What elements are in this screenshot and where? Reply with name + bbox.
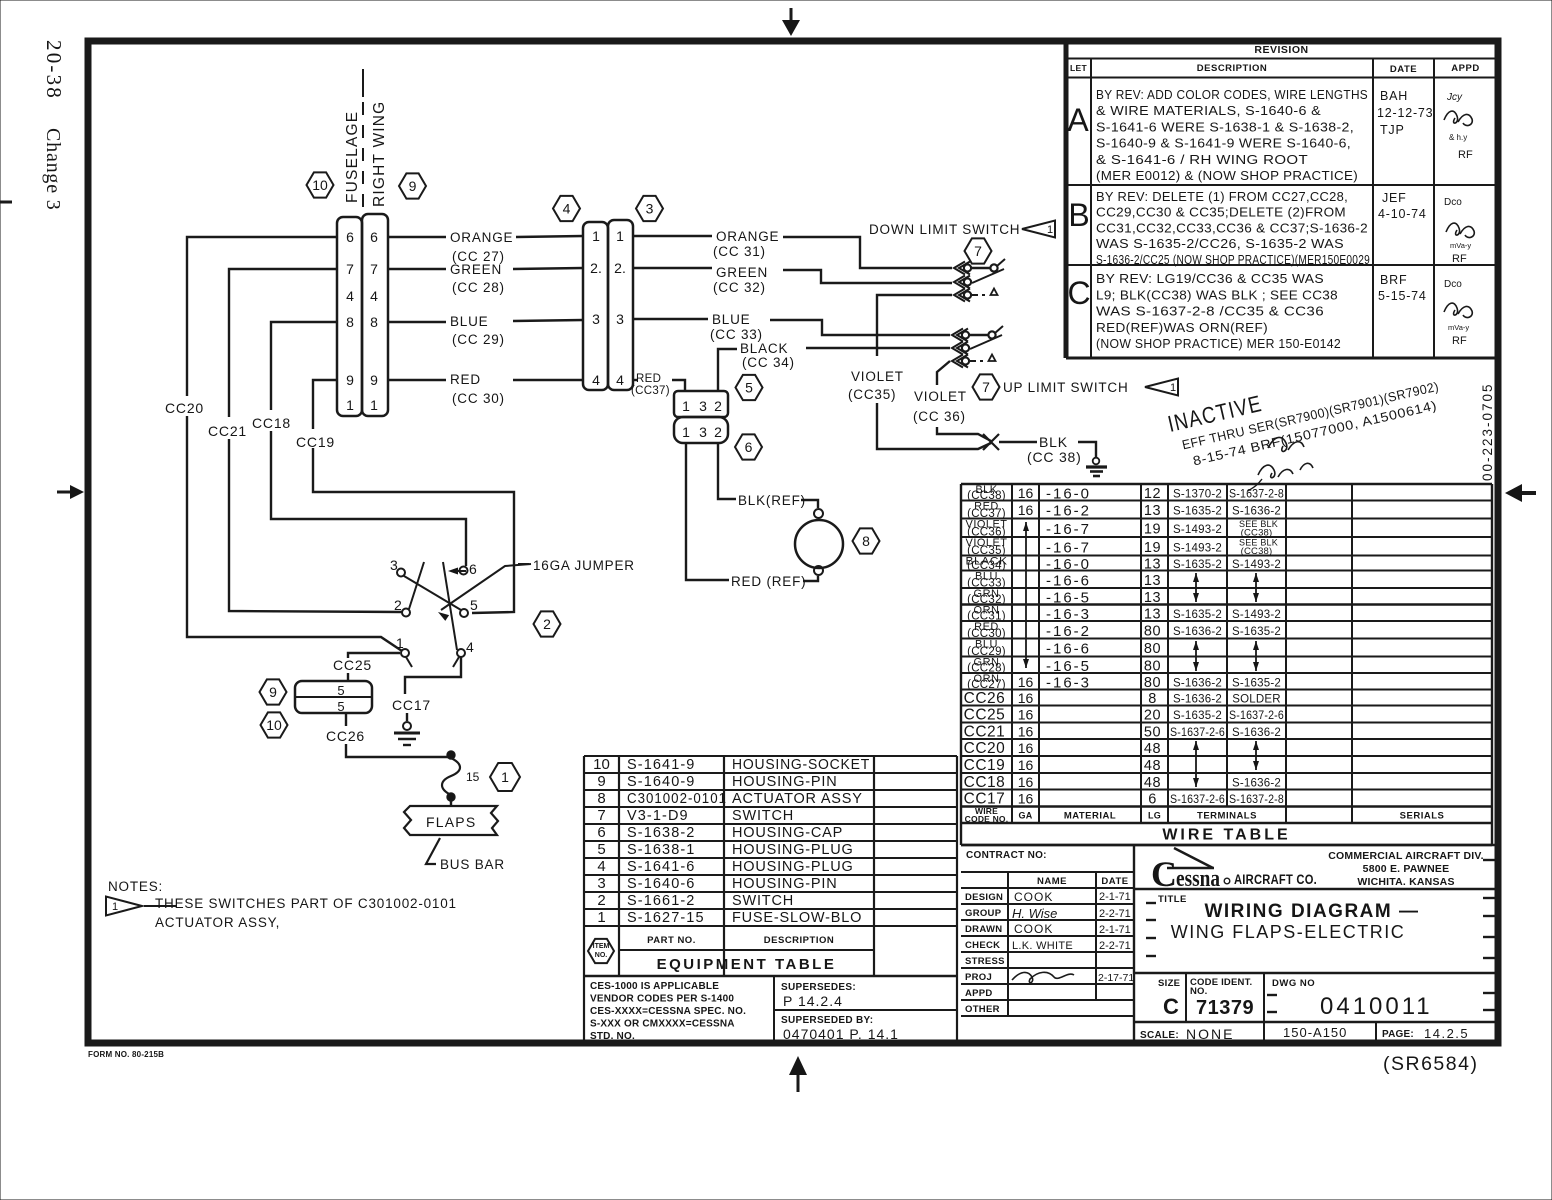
svg-text:CONTRACT NO:: CONTRACT NO: [966, 850, 1047, 861]
svg-text:3: 3 [390, 557, 399, 573]
svg-text:FUSELAGE: FUSELAGE [344, 111, 361, 203]
svg-text:C: C [1067, 275, 1090, 311]
svg-text:V3-1-D9: V3-1-D9 [627, 808, 689, 824]
svg-text:S-1493-2: S-1493-2 [1232, 609, 1281, 621]
svg-text:APPD: APPD [1451, 63, 1479, 74]
svg-text:(CC 28): (CC 28) [452, 280, 505, 295]
svg-text:-16-5: -16-5 [1046, 658, 1091, 675]
svg-text:NO.: NO. [595, 952, 608, 959]
svg-text:JEF: JEF [1382, 191, 1407, 205]
svg-text:2: 2 [597, 892, 605, 909]
svg-text:CES-XXXX=CESSNA SPEC. NO.: CES-XXXX=CESSNA SPEC. NO. [590, 1006, 746, 1017]
svg-text:6: 6 [469, 561, 478, 577]
svg-text:71379: 71379 [1196, 997, 1254, 1019]
svg-text:-16-0: -16-0 [1046, 556, 1091, 573]
svg-text:RF: RF [1452, 253, 1467, 265]
svg-text:(CC 36): (CC 36) [913, 409, 966, 424]
svg-text:& WIRE MATERIALS, S-1640-6 &: & WIRE MATERIALS, S-1640-6 & [1096, 104, 1321, 118]
svg-text:2-2-71: 2-2-71 [1099, 908, 1131, 920]
svg-text:4: 4 [592, 372, 600, 388]
svg-text:SUPERSEDED BY:: SUPERSEDED BY: [781, 1015, 873, 1026]
svg-text:4: 4 [597, 858, 605, 875]
svg-text:S-XXX OR CMXXXX=CESSNA: S-XXX OR CMXXXX=CESSNA [590, 1019, 735, 1030]
svg-text:2-1-71: 2-1-71 [1099, 924, 1131, 936]
svg-text:CC18: CC18 [252, 415, 291, 431]
svg-text:WIRE TABLE: WIRE TABLE [1162, 827, 1290, 844]
svg-text:C301002-0101: C301002-0101 [627, 791, 727, 807]
svg-text:1: 1 [501, 769, 509, 785]
svg-text:COMMERCIAL AIRCRAFT DIV.: COMMERCIAL AIRCRAFT DIV. [1328, 850, 1484, 862]
svg-text:13: 13 [1144, 573, 1161, 589]
svg-text:-16-2: -16-2 [1046, 503, 1091, 520]
svg-text:1: 1 [597, 909, 605, 926]
svg-text:NOTES:: NOTES: [108, 879, 163, 894]
svg-text:(CC 34): (CC 34) [742, 355, 795, 370]
svg-text:-16-3: -16-3 [1046, 674, 1091, 691]
svg-text:mVa-y: mVa-y [1448, 323, 1469, 332]
svg-text:S-1638-2: S-1638-2 [627, 825, 695, 841]
svg-text:CC26: CC26 [326, 728, 365, 744]
svg-text:DRAWN: DRAWN [965, 924, 1002, 935]
svg-text:1: 1 [112, 901, 118, 913]
svg-text:VIOLET: VIOLET [851, 369, 904, 384]
svg-text:SUPERSEDES:: SUPERSEDES: [781, 982, 856, 993]
svg-text:8: 8 [862, 533, 870, 549]
svg-text:CC25: CC25 [964, 707, 1006, 724]
svg-text:MATERIAL: MATERIAL [1064, 811, 1116, 822]
svg-text:S-1637-2-8: S-1637-2-8 [1229, 794, 1284, 806]
svg-text:10: 10 [593, 756, 610, 773]
svg-text:PROJ: PROJ [965, 972, 992, 983]
svg-text:(CC37): (CC37) [631, 385, 670, 397]
svg-text:S-1636-2: S-1636-2 [1173, 694, 1222, 706]
svg-text:CC17: CC17 [964, 791, 1006, 808]
svg-text:4: 4 [616, 372, 624, 388]
svg-text:(CC 33): (CC 33) [710, 327, 763, 342]
svg-text:S-1493-2: S-1493-2 [1232, 559, 1281, 571]
svg-text:BLUE: BLUE [712, 312, 750, 327]
svg-text:S-1635-2: S-1635-2 [1232, 677, 1281, 689]
svg-text:S-1640-9: S-1640-9 [627, 774, 695, 790]
svg-text:2-17-71: 2-17-71 [1098, 972, 1134, 984]
svg-text:S-1641-6: S-1641-6 [627, 859, 695, 875]
svg-text:16: 16 [1018, 791, 1034, 807]
svg-text:S-1627-15: S-1627-15 [627, 910, 705, 926]
svg-text:essna: essna [1176, 866, 1220, 892]
svg-text:8: 8 [370, 314, 378, 330]
svg-text:RED(REF)WAS ORN(REF): RED(REF)WAS ORN(REF) [1096, 321, 1268, 335]
svg-text:15: 15 [466, 770, 480, 784]
svg-text:STD. NO.: STD. NO. [590, 1031, 635, 1042]
svg-text:SERIALS: SERIALS [1400, 811, 1445, 822]
svg-text:8: 8 [597, 790, 605, 807]
svg-text:1: 1 [682, 398, 690, 414]
svg-text:2: 2 [394, 597, 403, 613]
svg-text:ITEM: ITEM [593, 943, 610, 950]
svg-text:16GA JUMPER: 16GA JUMPER [533, 558, 635, 573]
svg-text:Dco: Dco [1444, 197, 1462, 208]
svg-text:2-1-71: 2-1-71 [1099, 891, 1131, 903]
svg-text:5: 5 [337, 699, 344, 714]
svg-text:(CC 38): (CC 38) [1027, 449, 1082, 465]
svg-text:19: 19 [1144, 540, 1161, 556]
svg-text:WAS S-1635-2/CC26, S-1635-2 WA: WAS S-1635-2/CC26, S-1635-2 WAS [1096, 237, 1344, 251]
svg-text:BLUE: BLUE [450, 314, 488, 329]
svg-text:CODE NO.: CODE NO. [965, 814, 1009, 824]
svg-text:-16-5: -16-5 [1046, 589, 1091, 606]
svg-text:S-1640-6: S-1640-6 [627, 876, 695, 892]
svg-text:RED (REF): RED (REF) [731, 574, 806, 589]
svg-text:C: C [1151, 854, 1177, 894]
svg-text:8: 8 [346, 314, 354, 330]
svg-text:1: 1 [370, 397, 378, 413]
svg-text:BRF: BRF [1380, 273, 1407, 287]
svg-text:RED: RED [450, 372, 481, 387]
svg-text:FLAPS: FLAPS [426, 814, 476, 830]
svg-text:S-1636-2: S-1636-2 [1232, 727, 1281, 739]
svg-text:S-1640-9 & S-1641-9 WERE S-164: S-1640-9 & S-1641-9 WERE S-1640-6, [1096, 137, 1351, 151]
svg-text:80: 80 [1144, 658, 1161, 674]
svg-text:THESE SWITCHES PART OF C301002: THESE SWITCHES PART OF C301002-0101 [155, 896, 457, 911]
svg-text:CC19: CC19 [296, 434, 335, 450]
svg-text:HOUSING-PIN: HOUSING-PIN [732, 876, 837, 892]
svg-text:19: 19 [1144, 521, 1161, 537]
svg-text:9: 9 [370, 372, 378, 388]
svg-text:-16-6: -16-6 [1046, 641, 1091, 658]
svg-text:S-1635-2: S-1635-2 [1173, 506, 1222, 518]
svg-text:S-1636-2/CC25 (NOW SHOP PRACTI: S-1636-2/CC25 (NOW SHOP PRACTICE)(MER150… [1096, 253, 1370, 267]
svg-text:(CC 32): (CC 32) [713, 280, 766, 295]
svg-text:Dco: Dco [1444, 279, 1462, 290]
svg-text:APPD: APPD [965, 988, 993, 999]
svg-text:16: 16 [1018, 723, 1034, 739]
svg-text:NONE: NONE [1186, 1026, 1234, 1042]
svg-text:S-1635-2: S-1635-2 [1173, 559, 1222, 571]
svg-text:L.K. WHITE: L.K. WHITE [1012, 940, 1073, 952]
svg-text:9: 9 [597, 773, 605, 790]
svg-text:2.: 2. [614, 260, 626, 276]
svg-text:2.: 2. [590, 260, 602, 276]
svg-text:ACTUATOR ASSY,: ACTUATOR ASSY, [155, 915, 280, 930]
svg-text:WING FLAPS-ELECTRIC: WING FLAPS-ELECTRIC [1171, 922, 1406, 942]
svg-text:CC26: CC26 [964, 690, 1006, 707]
svg-text:CC20: CC20 [165, 400, 204, 416]
svg-text:16: 16 [1018, 707, 1034, 723]
svg-text:48: 48 [1144, 758, 1161, 774]
svg-text:A: A [1067, 102, 1089, 138]
svg-text:48: 48 [1144, 775, 1161, 791]
svg-text:RIGHT WING: RIGHT WING [371, 101, 388, 207]
svg-text:UP LIMIT SWITCH: UP LIMIT SWITCH [1003, 380, 1129, 395]
svg-text:48: 48 [1144, 741, 1161, 757]
svg-text:L9; BLK(CC38) WAS BLK ; SEE C: L9; BLK(CC38) WAS BLK ; SEE CC38 [1096, 288, 1338, 302]
svg-text:SWITCH: SWITCH [732, 808, 794, 824]
svg-text:S-1636-2: S-1636-2 [1232, 777, 1281, 789]
svg-text:50: 50 [1144, 724, 1161, 740]
svg-text:2-2-71: 2-2-71 [1099, 940, 1131, 952]
svg-text:FORM NO. 80-215B: FORM NO. 80-215B [88, 1050, 164, 1059]
svg-text:CC17: CC17 [392, 697, 431, 713]
svg-text:-16-0: -16-0 [1046, 485, 1091, 502]
svg-text:-16-7: -16-7 [1046, 539, 1091, 556]
svg-text:CES-1000 IS APPLICABLE: CES-1000 IS APPLICABLE [590, 981, 719, 992]
svg-text:CC20: CC20 [964, 740, 1006, 757]
svg-text:DESCRIPTION: DESCRIPTION [1197, 63, 1267, 74]
svg-text:TITLE: TITLE [1158, 894, 1187, 905]
svg-text:P 14.2.4: P 14.2.4 [783, 993, 843, 1009]
svg-text:S-1636-2: S-1636-2 [1173, 626, 1222, 638]
svg-text:WIRING DIAGRAM —: WIRING DIAGRAM — [1204, 901, 1419, 922]
svg-text:COOK: COOK [1014, 890, 1053, 904]
svg-text:80: 80 [1144, 675, 1161, 691]
svg-text:VIOLET: VIOLET [914, 389, 967, 404]
svg-text:6: 6 [745, 439, 753, 455]
svg-text:SCALE:: SCALE: [1140, 1030, 1179, 1041]
svg-text:S-1661-2: S-1661-2 [627, 893, 695, 909]
svg-text:(NOW SHOP PRACTICE) MER 150-E: (NOW SHOP PRACTICE) MER 150-E0142 [1096, 337, 1341, 351]
svg-text:S-1370-2: S-1370-2 [1173, 488, 1222, 500]
svg-text:TJP: TJP [1380, 123, 1405, 137]
svg-text:16: 16 [1018, 674, 1034, 690]
svg-text:LET: LET [1070, 63, 1087, 73]
svg-text:mVa-y: mVa-y [1450, 241, 1471, 250]
svg-text:BLK: BLK [1039, 434, 1068, 450]
svg-text:5: 5 [745, 380, 753, 396]
svg-text:3: 3 [699, 424, 707, 440]
svg-text:ORANGE: ORANGE [450, 230, 513, 245]
svg-text:16: 16 [1018, 485, 1034, 501]
svg-text:PAGE:: PAGE: [1382, 1029, 1414, 1040]
svg-text:9: 9 [346, 372, 354, 388]
svg-text:S-1641-9: S-1641-9 [627, 757, 695, 773]
svg-text:ACTUATOR ASSY: ACTUATOR ASSY [732, 791, 863, 807]
svg-text:Jcy: Jcy [1446, 92, 1463, 103]
svg-text:S-1637-2-6: S-1637-2-6 [1170, 794, 1225, 806]
svg-text:BY REV: DELETE (1) FROM CC27,C: BY REV: DELETE (1) FROM CC27,CC28, [1096, 190, 1348, 204]
svg-text:S-1637-2-6: S-1637-2-6 [1170, 727, 1225, 739]
svg-text:COOK: COOK [1014, 922, 1053, 936]
svg-text:CHECK: CHECK [965, 940, 1000, 951]
svg-text:(CC 29): (CC 29) [452, 332, 505, 347]
svg-text:DATE: DATE [1101, 876, 1128, 887]
svg-text:CC31,CC32,CC33,CC36 & CC37;S-1: CC31,CC32,CC33,CC36 & CC37;S-1636-2 [1096, 221, 1368, 235]
svg-text:(CC35): (CC35) [848, 387, 896, 402]
svg-text:4: 4 [346, 288, 354, 304]
svg-text:16: 16 [1018, 774, 1034, 790]
svg-text:CC19: CC19 [964, 757, 1006, 774]
svg-text:RF: RF [1458, 149, 1473, 161]
svg-text:4: 4 [370, 288, 378, 304]
svg-text:6: 6 [346, 229, 354, 245]
svg-text:PART NO.: PART NO. [647, 935, 696, 946]
svg-text:S-1637-2-8: S-1637-2-8 [1229, 488, 1284, 500]
svg-text:OTHER: OTHER [965, 1004, 1000, 1015]
svg-text:13: 13 [1144, 606, 1161, 622]
svg-text:VENDOR CODES PER S-1400: VENDOR CODES PER S-1400 [590, 994, 734, 1005]
svg-text:3: 3 [646, 201, 654, 217]
svg-text:20-38: 20-38 [42, 40, 66, 100]
svg-text:BLACK: BLACK [740, 341, 788, 356]
svg-text:S-1635-2: S-1635-2 [1232, 626, 1281, 638]
svg-text:5800 E. PAWNEE: 5800 E. PAWNEE [1363, 863, 1450, 875]
svg-text:GA: GA [1018, 811, 1032, 821]
svg-text:13: 13 [1144, 503, 1161, 519]
svg-text:S-1641-6 WERE S-1638-1 & S-163: S-1641-6 WERE S-1638-1 & S-1638-2, [1096, 120, 1354, 134]
svg-text:150-A150: 150-A150 [1283, 1025, 1347, 1040]
svg-text:CC29,CC30 & CC35;DELETE (2)FRO: CC29,CC30 & CC35;DELETE (2)FROM [1096, 206, 1346, 220]
svg-text:S-1637-2-6: S-1637-2-6 [1229, 710, 1284, 722]
svg-text:1: 1 [1047, 224, 1053, 236]
svg-text:B: B [1068, 197, 1089, 233]
svg-text:1: 1 [346, 397, 354, 413]
svg-text:HOUSING-SOCKET: HOUSING-SOCKET [732, 757, 870, 773]
svg-text:DESIGN: DESIGN [965, 892, 1003, 903]
svg-text:4-10-74: 4-10-74 [1378, 207, 1427, 221]
svg-text:HOUSING-PIN: HOUSING-PIN [732, 774, 837, 790]
svg-text:5: 5 [337, 683, 344, 698]
svg-text:(CC 31): (CC 31) [713, 244, 766, 259]
svg-text:16: 16 [1018, 690, 1034, 706]
svg-text:2: 2 [714, 398, 722, 414]
svg-text:BLK(REF): BLK(REF) [738, 493, 806, 508]
svg-text:FUSE-SLOW-BLO: FUSE-SLOW-BLO [732, 910, 862, 926]
svg-text:WAS S-1637-2-8 /CC35 & CC36: WAS S-1637-2-8 /CC35 & CC36 [1096, 305, 1324, 319]
svg-text:1: 1 [592, 228, 600, 244]
svg-text:GREEN: GREEN [450, 262, 502, 277]
svg-text:-16-2: -16-2 [1046, 623, 1091, 640]
svg-text:9: 9 [409, 178, 417, 194]
svg-text:13: 13 [1144, 590, 1161, 606]
svg-text:WICHITA. KANSAS: WICHITA. KANSAS [1357, 876, 1454, 888]
svg-text:10: 10 [266, 717, 282, 733]
svg-text:9: 9 [269, 684, 277, 700]
svg-text:5: 5 [470, 597, 479, 613]
svg-text:S-1638-1: S-1638-1 [627, 842, 695, 858]
svg-text:80: 80 [1144, 623, 1161, 639]
svg-text:(CC 30): (CC 30) [452, 391, 505, 406]
svg-text:NAME: NAME [1037, 876, 1067, 887]
svg-text:-16-6: -16-6 [1046, 572, 1091, 589]
svg-text:(SR6584): (SR6584) [1383, 1053, 1478, 1075]
svg-text:14.2.5: 14.2.5 [1424, 1026, 1469, 1041]
svg-text:1: 1 [682, 424, 690, 440]
svg-text:1: 1 [1170, 382, 1176, 394]
svg-text:3: 3 [597, 875, 605, 892]
svg-text:16: 16 [1018, 502, 1034, 518]
svg-text:2: 2 [714, 424, 722, 440]
svg-text:BY REV: ADD COLOR CODES, WIRE: BY REV: ADD COLOR CODES, WIRE LENGTHS [1096, 88, 1368, 102]
svg-text:Change 3: Change 3 [42, 128, 64, 211]
svg-text:80: 80 [1144, 641, 1161, 657]
svg-text:10: 10 [312, 177, 328, 193]
svg-text:1: 1 [616, 228, 624, 244]
svg-text:16: 16 [1018, 757, 1034, 773]
svg-text:S-1636-2: S-1636-2 [1232, 506, 1281, 518]
svg-text:C: C [1163, 994, 1179, 1019]
svg-text:HOUSING-PLUG: HOUSING-PLUG [732, 859, 854, 875]
svg-text:RED: RED [636, 373, 661, 385]
svg-text:4: 4 [466, 639, 475, 655]
svg-text:16: 16 [1018, 740, 1034, 756]
svg-text:S-1635-2: S-1635-2 [1173, 609, 1222, 621]
svg-text:7: 7 [974, 243, 982, 259]
svg-text:DOWN LIMIT SWITCH: DOWN LIMIT SWITCH [869, 222, 1020, 237]
svg-text:0410011: 0410011 [1320, 993, 1433, 1020]
svg-text:CC18: CC18 [964, 774, 1006, 791]
svg-text:GREEN: GREEN [716, 265, 768, 280]
svg-text:(CC38): (CC38) [1241, 546, 1273, 557]
svg-text:2: 2 [543, 616, 551, 632]
svg-text:8: 8 [1148, 691, 1157, 707]
svg-text:00-223-0705: 00-223-0705 [1480, 382, 1495, 481]
svg-text:4: 4 [563, 201, 571, 217]
svg-text:BAH: BAH [1380, 89, 1408, 103]
svg-text:TERMINALS: TERMINALS [1197, 811, 1257, 822]
svg-text:-16-7: -16-7 [1046, 521, 1091, 538]
svg-text:6: 6 [597, 824, 605, 841]
svg-text:(MER E0012) & (NOW SHOP PRACTI: (MER E0012) & (NOW SHOP PRACTICE) [1096, 169, 1358, 183]
svg-text:CC25: CC25 [333, 657, 372, 673]
svg-text:20: 20 [1144, 708, 1161, 724]
svg-text:S-1493-2: S-1493-2 [1173, 542, 1222, 554]
svg-text:12: 12 [1144, 486, 1161, 502]
svg-text:RF: RF [1452, 335, 1467, 347]
svg-text:7: 7 [346, 261, 354, 277]
svg-text:DATE: DATE [1390, 64, 1417, 75]
svg-text:CC21: CC21 [964, 723, 1006, 740]
svg-text:BUS BAR: BUS BAR [440, 857, 505, 872]
svg-text:SWITCH: SWITCH [732, 893, 794, 909]
svg-text:7: 7 [597, 807, 605, 824]
svg-text:REVISION: REVISION [1254, 44, 1308, 56]
svg-text:5: 5 [597, 841, 605, 858]
svg-text:-16-3: -16-3 [1046, 606, 1091, 623]
svg-text:5-15-74: 5-15-74 [1378, 289, 1427, 303]
svg-text:GROUP: GROUP [965, 908, 1002, 919]
svg-text:S-1635-2: S-1635-2 [1173, 710, 1222, 722]
svg-text:DWG NO: DWG NO [1272, 978, 1315, 989]
svg-text:& h.y: & h.y [1449, 133, 1467, 142]
svg-text:LG: LG [1148, 811, 1161, 821]
svg-text:SOLDER: SOLDER [1232, 694, 1281, 706]
svg-text:3: 3 [699, 398, 707, 414]
svg-text:12-12-73: 12-12-73 [1377, 106, 1433, 120]
svg-text:7: 7 [370, 261, 378, 277]
svg-text:HOUSING-CAP: HOUSING-CAP [732, 825, 843, 841]
svg-text:& S-1641-6 / RH WING ROOT: & S-1641-6 / RH WING ROOT [1096, 153, 1308, 167]
svg-text:13: 13 [1144, 557, 1161, 573]
svg-text:BY REV: LG19/CC36 & CC35 WAS: BY REV: LG19/CC36 & CC35 WAS [1096, 272, 1324, 286]
svg-text:6: 6 [370, 229, 378, 245]
svg-text:7: 7 [982, 379, 990, 395]
svg-text:1: 1 [396, 635, 405, 651]
svg-text:STRESS: STRESS [965, 956, 1005, 967]
svg-text:NO.: NO. [1190, 986, 1208, 997]
svg-text:HOUSING-PLUG: HOUSING-PLUG [732, 842, 854, 858]
svg-text:DESCRIPTION: DESCRIPTION [764, 935, 834, 946]
svg-text:H. Wise: H. Wise [1012, 906, 1057, 921]
svg-text:S-1636-2: S-1636-2 [1173, 677, 1222, 689]
svg-text:S-1493-2: S-1493-2 [1173, 524, 1222, 536]
svg-text:6: 6 [1148, 792, 1157, 808]
svg-text:0470401 P. 14.1: 0470401 P. 14.1 [783, 1026, 899, 1042]
svg-text:SIZE: SIZE [1158, 978, 1180, 989]
svg-text:3: 3 [592, 311, 600, 327]
svg-text:EQUIPMENT TABLE: EQUIPMENT TABLE [657, 956, 837, 973]
svg-text:AIRCRAFT CO.: AIRCRAFT CO. [1234, 872, 1317, 887]
svg-text:3: 3 [616, 311, 624, 327]
svg-text:ORANGE: ORANGE [716, 229, 779, 244]
